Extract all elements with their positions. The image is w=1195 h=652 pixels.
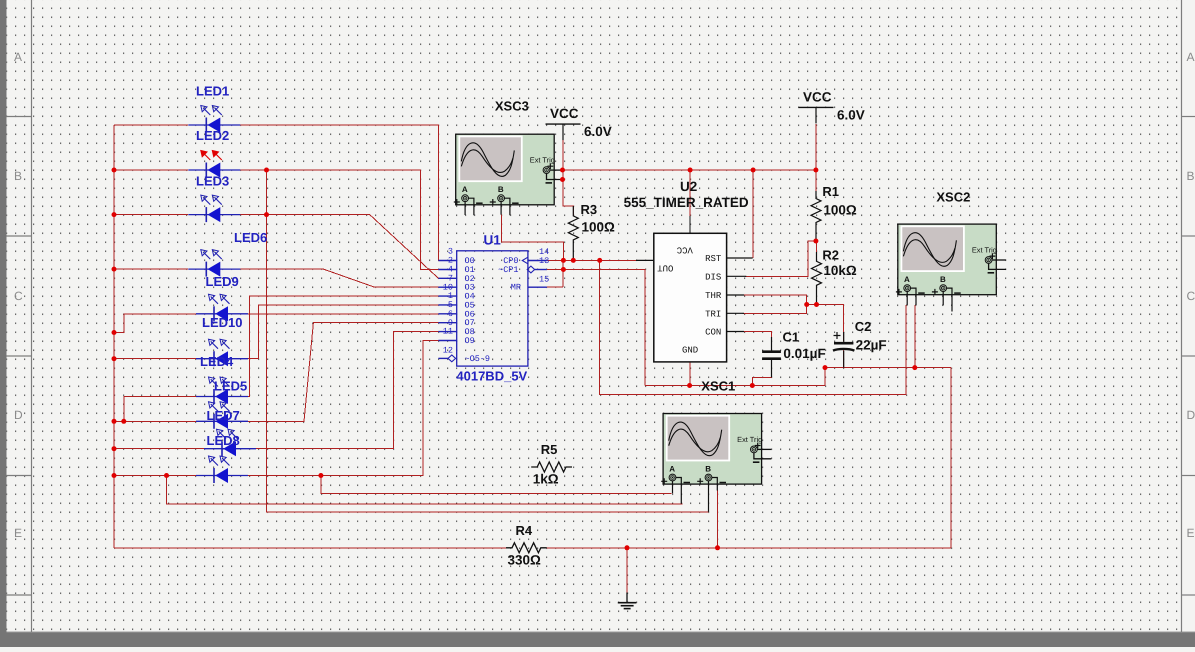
U1 pin CP0 lead bbox=[528, 260, 547, 262]
svg-text:C1: C1 bbox=[783, 330, 800, 345]
wire LED8 to U1 O9 bbox=[248, 341, 457, 476]
svg-text:Ext Trig: Ext Trig bbox=[737, 435, 762, 444]
wire TRI wire bbox=[743, 305, 807, 314]
IC U2 555_TIMER_RATED bbox=[636, 233, 753, 362]
wire LED1 to U1 O0 bbox=[240, 125, 457, 261]
wire R1/R2 junction to DIS bbox=[745, 241, 816, 276]
wire VCC rail to RST/R1 bbox=[563, 169, 816, 171]
wire VCC to R1 top bbox=[815, 170, 817, 192]
svg-text:B: B bbox=[705, 465, 711, 474]
wire cathode bus vertical bbox=[113, 125, 115, 548]
svg-text:11: 11 bbox=[443, 327, 453, 337]
svg-text:~O5-9: ~O5-9 bbox=[465, 354, 491, 364]
svg-text:LED1: LED1 bbox=[196, 84, 229, 99]
svg-text:C: C bbox=[1187, 289, 1195, 303]
wire LED3 to U1 O2 with diagonal bbox=[240, 215, 457, 279]
svg-text:Ext Trig: Ext Trig bbox=[530, 156, 555, 165]
svg-text:XSC2: XSC2 bbox=[936, 190, 970, 205]
svg-text:6.0V: 6.0V bbox=[584, 124, 612, 139]
wire LED4 to U1 O4 bbox=[248, 296, 457, 396]
svg-text:A: A bbox=[669, 465, 675, 474]
node clk-cp1 bbox=[561, 267, 566, 272]
svg-text:C2: C2 bbox=[855, 319, 872, 334]
XSC1 terminal B stubs bbox=[708, 481, 710, 512]
svg-text:15: 15 bbox=[539, 275, 549, 285]
oscilloscope XSC1 bbox=[661, 414, 771, 512]
node bus-LED5 bbox=[112, 419, 117, 424]
svg-text:E: E bbox=[1187, 526, 1195, 540]
LED LED3 bbox=[188, 195, 240, 222]
capacitor C1 0.01uF bbox=[762, 337, 781, 377]
wire VCC1 down bbox=[562, 124, 564, 179]
wire LED6 to U1 O3 with diagonal bbox=[240, 269, 457, 287]
sheet row divider 2 bbox=[7, 355, 32, 357]
wire C2 row down to gnd net bbox=[824, 368, 826, 386]
node bus-LED2 bbox=[112, 168, 117, 173]
resistor R5 bbox=[531, 462, 572, 472]
svg-text:R2: R2 bbox=[822, 248, 839, 263]
node LED3-col bbox=[264, 212, 269, 217]
sheet row divider 4 bbox=[7, 594, 32, 596]
svg-text:~CP1: ~CP1 bbox=[498, 265, 518, 275]
svg-text:D: D bbox=[14, 408, 23, 422]
sheet row divider 1 bbox=[7, 235, 32, 237]
node gnd-B- bbox=[715, 545, 720, 550]
wire XSC1 B- down to ground bus bbox=[717, 490, 719, 548]
wire LED8 cathode to XSC1 A- bbox=[167, 476, 683, 504]
wire clock net to XSC2 A+ bbox=[600, 260, 907, 394]
U1 pin O1 lead bbox=[438, 269, 456, 271]
wire R2 bottom to C2 top bbox=[807, 305, 844, 342]
svg-text:D: D bbox=[1187, 408, 1195, 422]
sheet border left strip bbox=[0, 0, 7, 647]
resistor R1 bbox=[811, 191, 821, 241]
XSC2 terminal A stubs bbox=[906, 292, 908, 306]
node R1-R2 bbox=[813, 239, 818, 244]
sheet border bottom strip bbox=[0, 632, 1195, 647]
LED LED10 bbox=[196, 339, 248, 366]
wire THR wire bbox=[743, 295, 807, 305]
U1 pin O3 lead bbox=[438, 286, 456, 288]
wire C2 bottom row bbox=[825, 367, 951, 369]
svg-text:XSC3: XSC3 bbox=[495, 99, 529, 114]
wire ground bus right of R4 bbox=[546, 547, 951, 549]
svg-text:LED5: LED5 bbox=[214, 379, 247, 394]
resistor R2 bbox=[812, 252, 822, 305]
node clk-R3 bbox=[571, 258, 576, 263]
svg-text:B: B bbox=[1187, 169, 1195, 183]
svg-text:VCC: VCC bbox=[676, 245, 693, 255]
node vccrail-RST bbox=[751, 168, 756, 173]
wire LED10 to U1 O5 bbox=[248, 305, 457, 359]
wire C1 bottom to gnd net bbox=[752, 359, 771, 386]
LED LED7 bbox=[204, 429, 256, 456]
wire LED9 to U1 O6 bbox=[248, 313, 457, 315]
wire MR to vertical bbox=[547, 286, 563, 288]
U1 pin O5 lead bbox=[438, 304, 456, 306]
svg-text:LED10: LED10 bbox=[202, 315, 242, 330]
node gnd-C1 bbox=[750, 383, 755, 388]
node vccrail-R1 bbox=[813, 168, 818, 173]
node vccrail-U2 bbox=[688, 168, 693, 173]
svg-text:A: A bbox=[904, 275, 910, 284]
svg-text:13: 13 bbox=[539, 256, 549, 266]
node R2-bot bbox=[814, 302, 819, 307]
sheet margin left line bbox=[31, 0, 33, 632]
U1 pin O2 lead bbox=[438, 277, 456, 279]
svg-text:O9: O9 bbox=[465, 336, 475, 346]
wire LED2 to U1 O1 bbox=[240, 170, 457, 270]
svg-text:LED9: LED9 bbox=[206, 274, 239, 289]
XSC1 terminal A stubs bbox=[672, 481, 674, 493]
wire R2 top red bbox=[816, 241, 818, 252]
wire LED9 row left jog bbox=[114, 314, 196, 333]
svg-text:Ext Trig: Ext Trig bbox=[972, 245, 997, 254]
resistor R4 bbox=[506, 543, 547, 553]
svg-text:R5: R5 bbox=[541, 442, 558, 457]
svg-text:330Ω: 330Ω bbox=[508, 552, 542, 567]
node LED2-col bbox=[264, 168, 269, 173]
wire LED5 row left bbox=[114, 420, 196, 422]
wire LED8 row left bbox=[114, 475, 196, 477]
U1 pin O9 lead bbox=[438, 340, 456, 342]
svg-text:MR: MR bbox=[511, 283, 521, 293]
LED LED6 bbox=[188, 250, 240, 277]
svg-text:LED4: LED4 bbox=[200, 354, 234, 369]
ground symbol bbox=[618, 593, 637, 609]
wire LED7 to U1 O8 bbox=[256, 332, 457, 449]
capacitor C2 22uF polarized bbox=[833, 332, 854, 368]
svg-text:100Ω: 100Ω bbox=[823, 202, 857, 217]
node bus-LED8 bbox=[112, 473, 117, 478]
wire ground stem bbox=[626, 548, 628, 593]
LED LED1 bbox=[188, 106, 240, 133]
XSC2 terminal B stubs bbox=[942, 292, 944, 306]
svg-text:LED6: LED6 bbox=[234, 230, 267, 245]
svg-text:B: B bbox=[940, 275, 946, 284]
node bus-LED10 bbox=[112, 356, 117, 361]
node bus-LED6 bbox=[112, 267, 117, 272]
wire LED1 row left bbox=[114, 124, 188, 126]
wire LED2 row left bbox=[114, 169, 188, 171]
node clk-b bbox=[561, 258, 566, 263]
svg-text:LED8: LED8 bbox=[207, 433, 240, 448]
svg-text:22µF: 22µF bbox=[856, 337, 887, 352]
resistor R3 bbox=[568, 206, 578, 260]
node bus-LED7 bbox=[112, 446, 117, 451]
svg-text:E: E bbox=[14, 526, 22, 540]
U1 pin O4 lead bbox=[438, 295, 456, 297]
svg-text:100Ω: 100Ω bbox=[582, 219, 616, 234]
wire U2 ground net row bbox=[645, 385, 825, 387]
svg-text:R1: R1 bbox=[822, 184, 839, 199]
node LED8-A+ bbox=[318, 473, 323, 478]
wire clock net down to MR bbox=[562, 260, 564, 287]
svg-text:LED7: LED7 bbox=[207, 408, 240, 423]
svg-text:TRI: TRI bbox=[705, 309, 721, 319]
U1 pin 12 ~O5-9 lead with inversion diamond bbox=[438, 357, 448, 359]
svg-text:6.0V: 6.0V bbox=[837, 107, 865, 122]
wire LED4 row left jog bbox=[124, 397, 196, 422]
wire LED10 row left bbox=[114, 358, 196, 360]
svg-text:XSC1: XSC1 bbox=[701, 379, 735, 394]
svg-text:CON: CON bbox=[705, 328, 721, 338]
power VCC VCC1 bbox=[546, 106, 581, 140]
svg-text:0.01µF: 0.01µF bbox=[783, 346, 825, 361]
node bus-LED3 bbox=[112, 212, 117, 217]
svg-text:U1: U1 bbox=[484, 233, 502, 248]
node A- xsc2 bbox=[912, 365, 917, 370]
LED LED2 bbox=[188, 151, 240, 178]
svg-text:R3: R3 bbox=[581, 202, 598, 217]
node C2-row bbox=[823, 365, 828, 370]
LED LED8 bbox=[196, 456, 248, 483]
node LED4-LED5 bbox=[121, 419, 126, 424]
LED LED5 bbox=[196, 402, 248, 429]
oscilloscope XSC3 bbox=[454, 134, 564, 215]
U1 pin ~CP1 lead with diamond bbox=[535, 269, 547, 271]
svg-text:B: B bbox=[498, 185, 504, 194]
wire VCC1 to R3 top bbox=[563, 180, 573, 216]
svg-text:VCC: VCC bbox=[550, 106, 579, 121]
U1 pin O7 lead bbox=[438, 322, 456, 324]
svg-text:A: A bbox=[462, 185, 468, 194]
wire U2 GND pin wire bbox=[689, 362, 691, 386]
node THR-TRI bbox=[804, 302, 809, 307]
sheet margin right line bbox=[1181, 0, 1183, 632]
wire LED5 to U1 O7 with steep diagonal bbox=[248, 323, 457, 422]
wire LED2/LED3 column to XSC1 B+ bbox=[267, 170, 709, 512]
oscilloscope XSC2 bbox=[896, 224, 1006, 311]
svg-text:THR: THR bbox=[705, 291, 722, 301]
svg-text:C: C bbox=[14, 289, 23, 303]
svg-text:555_TIMER_RATED: 555_TIMER_RATED bbox=[624, 195, 749, 210]
wire LED7 row left bbox=[114, 448, 204, 450]
U1 pin MR lead bbox=[528, 286, 547, 288]
svg-text:DIS: DIS bbox=[705, 272, 721, 282]
wire U2 VCC pin lead bbox=[689, 216, 691, 233]
LED LED4 bbox=[196, 377, 248, 404]
wire U2 VCC pin wire bbox=[689, 170, 691, 216]
node clk-down bbox=[597, 258, 602, 263]
node gnd-U2 bbox=[687, 383, 692, 388]
svg-text:GND: GND bbox=[682, 346, 698, 356]
svg-text:R4: R4 bbox=[516, 523, 533, 538]
svg-text:12: 12 bbox=[443, 345, 453, 355]
wire VCC2 down bbox=[815, 124, 817, 170]
sheet row divider 3 bbox=[7, 475, 32, 477]
node bus-LED9 bbox=[112, 330, 117, 335]
wire RST wire bbox=[752, 170, 754, 258]
wire CON to C1 top bbox=[744, 332, 772, 338]
wire XSC2 A- down bbox=[914, 305, 916, 367]
svg-text:RST: RST bbox=[705, 254, 722, 264]
U1 pin O8 lead bbox=[438, 331, 456, 333]
wire LED8 anode to XSC1 A+ bbox=[321, 476, 672, 494]
svg-text:A: A bbox=[14, 50, 22, 64]
svg-text:OUT: OUT bbox=[657, 262, 674, 272]
node gnd-stem bbox=[625, 545, 630, 550]
svg-text:B: B bbox=[14, 169, 22, 183]
sheet row divider 0 bbox=[7, 116, 32, 118]
wire ground bus up to C2 row bbox=[950, 367, 952, 547]
U1 pin O6 lead bbox=[438, 313, 456, 315]
wire XSC3 B+ to clock net bbox=[501, 215, 563, 261]
svg-text:VCC: VCC bbox=[803, 89, 832, 104]
XSC3 terminal B stubs bbox=[500, 202, 502, 215]
node LED8-A- bbox=[164, 473, 169, 478]
wire C2 bottom lead wire bbox=[843, 351, 845, 368]
svg-text:1kΩ: 1kΩ bbox=[533, 472, 559, 487]
wire ground bus left of R4 bbox=[114, 547, 506, 549]
node exttrig- bbox=[560, 177, 565, 182]
LED LED9 bbox=[196, 294, 248, 321]
wire CP1 row down to gnd net bbox=[547, 270, 645, 386]
U1 pin O0 lead bbox=[438, 260, 456, 262]
wire LED3 row left bbox=[114, 214, 188, 216]
node exttrig+ bbox=[560, 168, 565, 173]
U2 pin OUT lead bbox=[636, 259, 654, 261]
svg-text:A: A bbox=[1187, 50, 1195, 64]
svg-text:10kΩ: 10kΩ bbox=[823, 263, 857, 278]
IC U1 4017BD_5V bbox=[438, 247, 549, 366]
XSC3 terminal A stubs bbox=[464, 202, 466, 215]
svg-text:LED3: LED3 bbox=[196, 174, 229, 189]
wire LED6 row left bbox=[114, 268, 188, 270]
svg-text:LED2: LED2 bbox=[196, 128, 229, 143]
svg-text:U2: U2 bbox=[680, 179, 697, 194]
power VCC VCC2 bbox=[799, 89, 834, 123]
wire CP0 row to U2 OUT bbox=[547, 259, 636, 261]
svg-text:4017BD_5V: 4017BD_5V bbox=[456, 369, 527, 384]
